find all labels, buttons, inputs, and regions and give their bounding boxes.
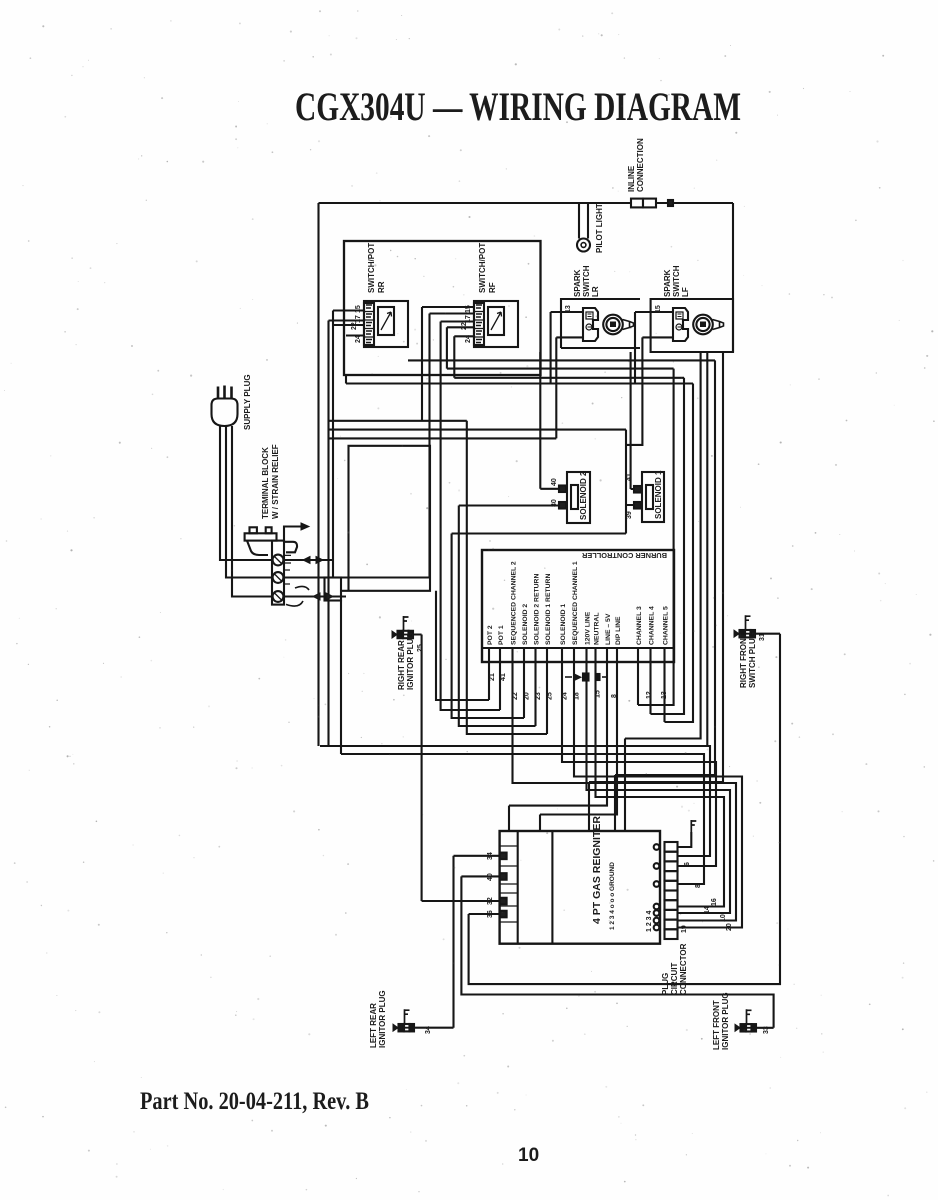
wire loop rectangle [341,446,430,591]
svg-text:LF: LF [681,287,690,297]
wire right bundle v700 to reigniter top [625,352,701,831]
wire RF pin1 stub [422,307,474,421]
wire h360 run down right to reigniter top [408,360,715,831]
wire spark LF upper [635,312,673,384]
wire RR pin2 down left side [327,321,329,747]
svg-text:CHANNEL 5: CHANNEL 5 [663,606,670,645]
svg-text:120V LINE: 120V LINE [585,611,592,645]
svg-text:SOLENOID 1 RETURN: SOLENOID 1 RETURN [545,574,552,645]
svg-text:17: 17 [465,315,472,323]
terminal block screw 2 [273,572,284,583]
switch/pot RR enclosure [364,301,408,347]
wire RR pin1 stub [333,309,364,311]
wire RF pin3 stub [441,320,474,322]
solenoid 2 box [567,472,590,523]
wire reigniter pin4 to right front plug [469,634,780,984]
svg-text:34: 34 [487,852,494,860]
svg-text:20: 20 [524,692,531,700]
spark switch LR knob [603,315,623,335]
svg-text:SPARK: SPARK [663,269,672,297]
reigniter left column dividers [500,846,518,922]
svg-text:SEQUENCED CHANNEL 2: SEQUENCED CHANNEL 2 [511,561,518,645]
svg-text:22: 22 [351,322,358,330]
svg-text:LEFT FRONT: LEFT FRONT [712,1000,721,1050]
inline connector marks on controller wires [565,676,572,678]
wire controller 120V to connector [574,648,742,928]
svg-text:18: 18 [574,692,581,700]
wire right bundle v707 [706,352,708,746]
svg-text:CHANNEL 3: CHANNEL 3 [636,606,643,645]
wire RR pin4 stub [346,334,364,336]
svg-text:DIP LINE: DIP LINE [615,616,622,645]
wire spark LF lower jog [626,337,642,445]
wire terminal screw3 stub [284,595,346,597]
left front ignitor plug symbol [737,1027,758,1029]
terminal block wire arrows [296,557,323,564]
switch/pot RR body [378,307,394,335]
svg-text:RIGHT REAR: RIGHT REAR [397,640,406,690]
svg-text:SPARK: SPARK [573,269,582,297]
wire connector top pin to plug symbol [678,832,692,847]
svg-text:21: 21 [489,673,496,681]
left rear ignitor plug symbol [395,1027,416,1029]
svg-text:LR: LR [591,286,600,297]
svg-text:1 2 3 4 o o o GROUND: 1 2 3 4 o o o GROUND [609,862,616,930]
terminal block screw 3 [273,591,284,602]
wire RF pin5 stub [454,336,474,378]
svg-text:24: 24 [355,335,362,343]
supply cord wire 2 [226,426,272,578]
right front switch plug symbol [736,633,757,635]
wire supply neutral bottom run B to reigniter connector [341,600,704,884]
wire h368 run to controller CH3 [447,369,674,705]
svg-text:14: 14 [704,906,711,914]
svg-text:34: 34 [425,1026,432,1034]
svg-text:10: 10 [518,1145,539,1166]
svg-text:22: 22 [512,692,519,700]
svg-text:36: 36 [487,910,494,918]
svg-text:24: 24 [465,335,472,343]
spark switch LR body [583,308,598,341]
svg-text:CONNECTION: CONNECTION [636,138,645,192]
svg-text:40: 40 [487,873,494,881]
wire right bundle v723 to reigniter top [589,352,723,831]
svg-text:PLUG: PLUG [661,973,670,995]
svg-text:15: 15 [465,305,472,313]
spark switch LR enclosure [561,299,640,348]
supply cord wire 1 [220,426,262,560]
svg-text:15: 15 [355,305,362,313]
svg-text:22: 22 [461,322,468,330]
svg-text:6: 6 [684,862,691,866]
svg-text:SOLENOID 2: SOLENOID 2 [522,604,529,645]
svg-text:CHANNEL 4: CHANNEL 4 [649,606,656,645]
spark switch LF knob [693,315,713,335]
spark switch LF body [673,308,688,341]
spark switch LF enclosure [651,299,733,352]
inline connection symbol [631,199,643,208]
reigniter left pin squares [500,853,507,860]
svg-text:23: 23 [535,692,542,700]
svg-text:IGNITOR PLUG: IGNITOR PLUG [378,990,387,1048]
wire terminal screw1 to RR pin1 [262,311,333,578]
svg-text:16: 16 [711,898,718,906]
wire supply line bottom run A to reigniter connector [320,746,710,856]
supply plug body [212,399,238,427]
outer schematic box top edge [319,202,734,204]
wire solenoid2 upper [540,352,560,489]
switch/pot RF enclosure [474,301,518,347]
solenoid 1 box [642,472,664,522]
svg-text:PILOT LIGHT: PILOT LIGHT [595,203,604,253]
svg-text:W / STRAIN RELIEF: W / STRAIN RELIEF [271,444,280,519]
svg-text:8: 8 [695,884,702,888]
switch/pot RF body [488,307,504,335]
reigniter right connector boxes [665,842,678,852]
wire spark LR lower chain [329,337,584,438]
svg-text:24: 24 [562,692,569,700]
reigniter connector circles [654,844,660,850]
svg-text:IGNITOR PLUG: IGNITOR PLUG [406,632,415,690]
wire h420 run [329,421,548,734]
svg-text:SUPPLY PLUG: SUPPLY PLUG [243,374,252,430]
right rear ignitor plug symbol [394,634,415,636]
svg-text:13: 13 [661,691,668,699]
screw ticks right [284,555,291,584]
svg-text:BURNER CONTROLLER: BURNER CONTROLLER [581,551,667,560]
svg-text:25: 25 [547,692,554,700]
solenoid 2 pin squares [559,486,566,493]
svg-text:10: 10 [720,914,727,922]
wire h377 run to controller CH4 [454,378,684,714]
svg-text:POT 2: POT 2 [487,625,494,645]
svg-text:SEQUENCED CHANNEL 1: SEQUENCED CHANNEL 1 [572,561,579,645]
svg-text:RR: RR [377,281,386,293]
svg-text:CGX304U — WIRING DIAGRAM: CGX304U — WIRING DIAGRAM [295,84,741,129]
supply plug prongs [218,386,232,399]
svg-text:RF: RF [488,282,497,293]
switch/pot RF pin strip [474,303,484,345]
svg-text:CONNECTOR: CONNECTOR [679,943,688,995]
svg-text:NEUTRAL: NEUTRAL [594,613,601,645]
wire controller SEQ CH1 to connector [562,648,716,866]
svg-text:LINE – 5V: LINE – 5V [605,613,612,645]
svg-text:12: 12 [646,691,653,699]
wire loop bottom to controller POT2 [436,591,489,700]
svg-text:Part No. 20-04-211, Rev. B: Part No. 20-04-211, Rev. B [140,1088,369,1115]
switch/pot RR pin strip [364,303,374,345]
terminal block strip body [272,541,284,605]
svg-text:13: 13 [565,305,572,313]
svg-text:1 2 3 4: 1 2 3 4 [646,910,653,932]
svg-text:SOLENOID 2: SOLENOID 2 [579,471,588,520]
svg-text:SOLENOID 1: SOLENOID 1 [654,470,663,519]
svg-text:20: 20 [726,923,733,931]
wire RR pin2 stub [329,319,365,321]
svg-text:41: 41 [626,473,633,481]
wire controller SEQ CH2 long run to connector [513,648,737,921]
svg-text:25: 25 [417,644,424,652]
wire reigniter pin2 to left front plug [461,876,773,1027]
wire controller NEUTRAL to connector [587,648,731,913]
svg-text:POT 1: POT 1 [498,625,505,645]
terminal block lower hook [286,586,309,606]
reigniter top plug symbol [691,820,696,832]
supply cord wire 3 [232,426,272,597]
wire solenoid2 lower to controller [459,506,560,727]
wire reigniter pin1 to left rear plug [413,856,500,1028]
outer schematic box right edge [732,203,734,352]
svg-text:IGNITOR PLUG: IGNITOR PLUG [721,992,730,1050]
wire spark LR upper chain [346,312,693,722]
svg-text:SWITCH PLUG: SWITCH PLUG [748,632,757,688]
svg-text:RIGHT FRONT: RIGHT FRONT [739,633,748,688]
svg-text:SOLENOID 2 RETURN: SOLENOID 2 RETURN [534,574,541,645]
svg-text:15: 15 [595,690,602,698]
svg-text:CIRCUIT: CIRCUIT [670,962,679,995]
pilot light lamp symbol [577,239,590,252]
svg-text:40: 40 [551,478,558,486]
terminal block clamp bar [245,533,277,540]
svg-text:33: 33 [763,1026,770,1034]
svg-text:39: 39 [626,511,633,519]
svg-text:SWITCH: SWITCH [582,265,591,297]
terminal block top right wire arrow [284,527,301,543]
wire RR pin3 stub [333,324,364,326]
terminal block strain relief flanges [247,541,297,555]
burner controller box [482,550,674,662]
wire terminal screw2 up to RF pin2 [284,314,474,578]
wire right rear plug to reigniter pin3 [412,635,500,902]
4pt gas reigniter box [500,831,660,944]
wire controller pin11 to reigniter top [509,648,607,831]
terminal block screw 1 [273,555,284,566]
svg-text:31: 31 [759,633,766,641]
wire solenoid1 upper [631,352,635,489]
svg-text:LEFT REAR: LEFT REAR [369,1003,378,1048]
screw wire connector box [325,578,342,601]
svg-text:INLINE: INLINE [627,165,636,192]
solenoid 1 pin squares [634,486,641,493]
svg-text:SWITCH/POT: SWITCH/POT [367,243,376,293]
svg-text:SWITCH: SWITCH [672,265,681,297]
svg-text:32: 32 [487,897,494,905]
svg-text:19: 19 [681,925,688,933]
svg-text:4 PT GAS REIGNITER: 4 PT GAS REIGNITER [591,816,603,924]
svg-text:SWITCH/POT: SWITCH/POT [478,243,487,293]
wire controller line to connector [596,648,725,907]
svg-text:15: 15 [655,305,662,313]
svg-text:17: 17 [355,315,362,323]
wire RF pin4 down to controller POT1 [441,322,500,711]
svg-text:8: 8 [611,694,618,698]
wire controller pin12 to reigniter top [540,648,617,831]
svg-text:30: 30 [551,499,558,507]
burner controller pin ticks [489,648,665,662]
outer schematic box left edge [317,203,319,746]
inner box around switch/pots [344,241,541,375]
pilot light wires [579,203,588,239]
wire spark LF lower stub [642,336,673,338]
svg-text:SOLENOID 1: SOLENOID 1 [560,604,567,645]
wire RF pin4 stub [447,327,474,368]
svg-text:TERMINAL BLOCK: TERMINAL BLOCK [261,447,270,519]
svg-text:41: 41 [500,673,507,681]
wire h429 run to solenoid1 jog [329,430,636,718]
